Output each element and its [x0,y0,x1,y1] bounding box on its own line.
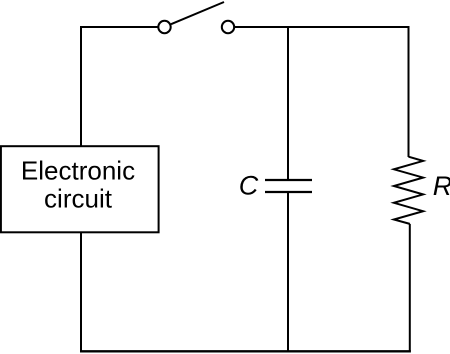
resistor R zigzag [394,157,423,224]
svg-text:Electronic: Electronic [21,156,135,186]
wire left vertical lower [80,232,82,352]
wire right vertical lower [409,224,411,351]
wire capacitor branch upper [287,27,289,180]
switch S1 right contact [222,21,234,33]
wire top-right horizontal [235,26,410,28]
wire capacitor branch lower [287,192,289,351]
Electronic circuit block [1,146,159,232]
svg-text:circuit: circuit [44,184,113,214]
switch S1 lever [171,2,224,24]
wire right vertical upper [408,27,410,157]
capacitor C top plate [265,179,312,181]
svg-text:C: C [239,171,259,201]
wire top-left horizontal [81,26,158,28]
capacitor C bottom plate [265,191,312,193]
wire left vertical upper [80,26,82,147]
wire bottom horizontal [80,350,411,352]
svg-text:R: R [433,171,450,201]
switch S1 left contact [158,21,170,33]
